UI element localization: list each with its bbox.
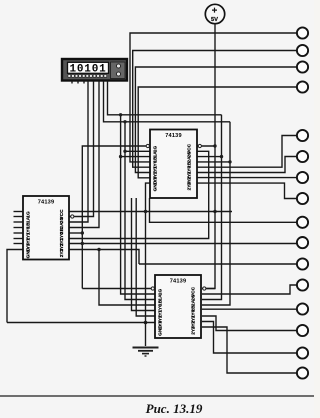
wire address A right drop to bottom IC 2A <box>202 115 222 300</box>
wire terminal 4 to mid 1Y3 <box>138 87 297 178</box>
terminal 9 <box>297 217 308 228</box>
svg-text:GND: GND <box>26 247 32 258</box>
wire address A drop to bottom IC 1A <box>121 115 155 294</box>
wire ground rail <box>7 322 155 324</box>
IC U1 74139 left <box>23 196 69 260</box>
terminal 7 <box>297 172 308 183</box>
svg-text:2G: 2G <box>59 217 65 224</box>
wire left IC 2Y0 to mid IC 1G <box>69 232 82 234</box>
word generator <box>62 59 127 81</box>
svg-text:5V: 5V <box>211 17 218 23</box>
wire mid IC 2Y3 to terminal 8 <box>197 183 297 198</box>
pin stub left IC 6 <box>14 238 24 240</box>
wire branch to bottom IC pin <box>99 250 155 306</box>
wire terminal 2 to mid 1Y1 <box>133 51 298 168</box>
node mid 2A <box>220 155 223 158</box>
node enable tap <box>81 231 84 234</box>
svg-text:74139: 74139 <box>38 200 55 206</box>
wire terminal 1 to mid 1Y0 <box>130 33 297 162</box>
IC U3 74139 bottom <box>155 275 201 338</box>
wire left IC VCC rail <box>69 211 232 213</box>
terminal 10 <box>297 237 308 248</box>
pin stub left IC 7 <box>14 243 24 245</box>
wire address B drop to bottom IC 1B <box>125 122 155 300</box>
svg-text:2Y3: 2Y3 <box>187 182 193 191</box>
node VCC rail cross <box>144 210 147 213</box>
terminal 11 <box>297 258 308 269</box>
node address B tap <box>123 120 126 123</box>
node ground junction <box>144 321 148 325</box>
svg-text:1A: 1A <box>26 216 32 223</box>
wire mid IC 2Y1 to terminal 6 <box>197 157 297 173</box>
node bottom r4 branch <box>97 248 100 251</box>
wire mid IC 1B tap <box>121 156 150 158</box>
svg-text:1A: 1A <box>158 294 164 301</box>
terminal 2 <box>297 45 308 56</box>
svg-text:1A: 1A <box>153 151 159 158</box>
svg-text:74139: 74139 <box>170 279 187 285</box>
wire generator pin 4 address B <box>104 81 231 122</box>
wire generator pin stub a <box>71 81 73 84</box>
svg-text:1G: 1G <box>26 211 32 218</box>
pin stub left IC 3 <box>14 221 24 223</box>
wire generator pin 2 to left IC 2A <box>69 81 88 222</box>
wire bottom IC 2Y3 to terminal 16 <box>202 327 297 373</box>
wire generator pin 5 address A <box>108 81 222 115</box>
svg-text:2Y3: 2Y3 <box>191 326 197 335</box>
node VCC left IC <box>213 210 216 213</box>
svg-text:2A: 2A <box>59 222 65 229</box>
wire left IC 2Y3 <box>69 250 139 265</box>
node mid 1B <box>119 155 122 158</box>
ground <box>133 348 159 357</box>
pin stub left IC 5 <box>14 232 24 234</box>
terminal 8 <box>297 193 308 204</box>
svg-text:2Y3: 2Y3 <box>59 248 65 257</box>
pin bubble mid IC 1G <box>146 144 149 147</box>
node mid 1A <box>123 150 126 153</box>
wire mid IC tap to bottom IC 2A row <box>132 198 156 311</box>
svg-text:GND: GND <box>153 180 159 191</box>
svg-text:2A: 2A <box>191 299 197 306</box>
node mid 2B <box>228 160 231 163</box>
wire bottom IC 2Y2 to terminal 15 <box>202 322 297 354</box>
terminal 1 <box>297 27 308 38</box>
svg-text:2A: 2A <box>187 156 193 163</box>
pin stub left IC 1 <box>14 211 24 213</box>
pin bubble mid VCC <box>198 144 201 147</box>
pin stub left IC 2 <box>14 216 24 218</box>
wire terminal 9 feed <box>150 198 298 222</box>
wire mid IC 1A tap <box>125 150 150 152</box>
wire generator pin 3 to left IC 2G <box>69 81 94 217</box>
svg-text:Рис. 13.19: Рис. 13.19 <box>146 401 203 416</box>
IC U2 74139 middle <box>150 130 197 199</box>
terminal 5 <box>297 130 308 141</box>
wire mid IC VCC <box>197 145 215 147</box>
wire terminal 3 to mid 1Y2 <box>135 67 297 173</box>
wire left IC 2Y2 to terminal 10 <box>69 243 297 245</box>
pin bubble bottom IC 1G <box>151 287 154 290</box>
svg-text:1G: 1G <box>153 146 159 153</box>
wire generator pin stub b <box>77 81 79 84</box>
wire branch to bottom IC 1G <box>82 288 155 290</box>
node bottom 1G branch <box>81 242 84 245</box>
wire generator pin stub c <box>83 81 85 84</box>
terminal 16 <box>297 367 308 378</box>
terminal 6 <box>297 151 308 162</box>
wire mid IC 2Y0 to terminal 5 <box>197 136 297 168</box>
wire mid IC 2Y2 to terminal 7 <box>197 177 297 179</box>
terminal 3 <box>297 61 308 72</box>
wire left IC GND down <box>7 250 23 323</box>
pin bubble bottom VCC <box>203 287 206 290</box>
terminal 4 <box>297 81 308 92</box>
terminal 14 <box>297 325 308 336</box>
node address A tap <box>119 113 122 116</box>
wire +5V rail vertical <box>202 24 215 289</box>
wire bottom IC 2Y1 to terminal 14 <box>202 316 297 331</box>
wire bottom IC 2Y0 to terminal 13 <box>202 308 297 310</box>
wire bottom IC VCC <box>202 288 215 290</box>
caption rule <box>0 395 314 397</box>
wire address B right drop to bottom IC 2B <box>202 122 230 305</box>
pin stub left IC 4 <box>14 227 24 229</box>
power source +5V <box>205 4 224 23</box>
wire mid IC 2B tap <box>197 161 230 163</box>
wire mid IC tap to bottom IC 2B row <box>136 198 155 316</box>
wire to terminal 11 <box>139 263 297 265</box>
terminal 13 <box>297 303 308 314</box>
wire mid IC GND to ground rail <box>146 183 151 346</box>
terminal 15 <box>297 347 308 358</box>
wire mid IC 2A tap <box>197 156 222 158</box>
svg-text:74139: 74139 <box>165 133 182 139</box>
wire bottom IC r2 to terminal 12 <box>202 285 297 294</box>
terminal 12 <box>297 279 308 290</box>
wire generator pin 1 to left IC 2B <box>69 81 99 228</box>
svg-text:2G: 2G <box>191 294 197 301</box>
svg-text:2G: 2G <box>187 151 193 158</box>
svg-text:GND: GND <box>158 325 164 336</box>
svg-text:1G: 1G <box>158 289 164 296</box>
pin bubble left IC 2G <box>71 215 74 218</box>
node VCC mid IC <box>213 144 216 147</box>
svg-text:10101: 10101 <box>69 64 106 76</box>
wire left IC 2Y1 to mid IC 2G <box>69 151 209 238</box>
